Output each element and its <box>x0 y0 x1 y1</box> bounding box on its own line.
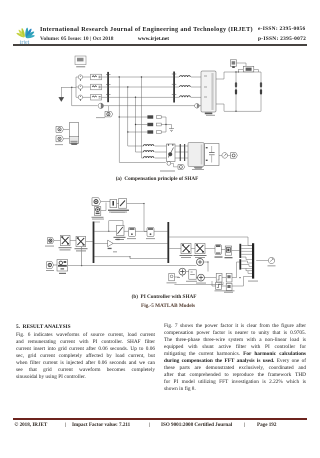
switch block 2 <box>222 277 226 279</box>
line inductors phase A <box>175 76 201 78</box>
from tag 1 bottom-left <box>56 126 64 132</box>
discrete filter block 1 <box>110 199 117 207</box>
caption (b) <box>89 294 239 300</box>
voltage sensor circle right <box>219 154 222 156</box>
extra labels diagram b <box>45 212 258 293</box>
junction dots <box>119 71 237 132</box>
abc-dq0 block 2 <box>76 236 86 246</box>
AC source Vc <box>78 95 82 99</box>
from tag pll <box>47 262 54 269</box>
left column paragraph <box>16 332 155 374</box>
leaf fan left (yellow-green petals) <box>16 28 26 38</box>
universal bridge block <box>201 71 216 112</box>
sensor circle below breaker <box>167 162 171 166</box>
dq0-abc block 1 <box>169 248 181 250</box>
goto tag small <box>178 165 185 170</box>
caption (a) <box>82 176 232 182</box>
constant block bottom left <box>169 273 175 280</box>
sum circle <box>197 259 204 266</box>
sum circle 3 <box>198 274 205 281</box>
pi block <box>147 227 154 236</box>
left rail wire <box>76 77 79 97</box>
fan wires to mux <box>241 246 252 274</box>
mux bar right (b) <box>167 222 169 263</box>
scope two-cell block <box>64 129 70 139</box>
inverter inductor row1 <box>144 145 154 146</box>
bottom switch block B <box>226 283 232 290</box>
measurement block top right <box>243 66 254 72</box>
saturation block <box>128 227 135 236</box>
RC shunt filter row 2 <box>136 124 148 126</box>
ground <box>59 97 64 101</box>
mux output scope circle <box>256 260 268 262</box>
dc block white <box>205 144 220 166</box>
dq0-abc block 2 <box>191 248 195 250</box>
abc-dq0 block 1 <box>60 235 70 245</box>
load branch 1 <box>235 72 237 111</box>
series RLC branch A <box>91 74 102 80</box>
from tag id <box>47 238 54 244</box>
section heading <box>16 324 71 330</box>
integrator block <box>189 270 196 279</box>
leaf fan right (teal petals) <box>25 28 35 39</box>
scope block top right <box>230 60 236 66</box>
series RLC branch B <box>91 84 102 90</box>
wires to top-right blocks <box>237 63 259 72</box>
bottom switch block A <box>216 282 222 289</box>
phase taps down <box>119 77 141 162</box>
wire sources to RLC <box>83 77 91 97</box>
gain pu triangle <box>94 242 107 244</box>
breaker input dots <box>168 144 169 145</box>
pll long wire <box>68 265 197 267</box>
from tag 2 bottom-left <box>56 136 64 142</box>
inverter inductor row2 <box>144 151 154 152</box>
AC source Va <box>78 75 82 79</box>
inverter rows wires <box>128 146 144 158</box>
switch block 1 <box>216 273 222 282</box>
RC bank collector and ground <box>166 117 172 132</box>
wires tag to filter blocks <box>101 202 110 211</box>
three-phase VI measurement bus 1 <box>107 72 109 102</box>
RC shunt filter row 3 <box>128 131 148 133</box>
goto tag vabc <box>105 111 113 117</box>
rate transition block <box>94 230 116 232</box>
bar1 bottom step wire <box>94 257 167 259</box>
powergui block <box>75 56 86 65</box>
three-phase VI measurement bus 2 <box>173 72 175 103</box>
junction dots b <box>129 203 240 278</box>
sample block under tag <box>94 207 100 216</box>
footer text <box>15 422 48 428</box>
mini mux bar lower <box>239 259 241 269</box>
wire filter to center <box>117 204 147 232</box>
measurement bars pair <box>180 144 181 161</box>
mux bar left (b) <box>93 222 95 264</box>
pwm block <box>221 249 225 251</box>
labels under (a) bottom blocks <box>160 171 175 172</box>
AC source Vb <box>78 85 82 89</box>
caption fig5 <box>93 303 243 309</box>
header logo irjet <box>12 22 38 46</box>
discrete PLL block <box>54 264 57 266</box>
load branch 2 <box>260 72 262 111</box>
mini mux bar upper <box>239 244 241 258</box>
relay block <box>215 245 221 255</box>
series RLC branch C <box>91 94 102 100</box>
mux bar3 <box>252 243 254 278</box>
ground tap wire <box>61 87 76 106</box>
line inductors phase C <box>175 96 201 98</box>
bar2 top bypass wire <box>169 237 252 246</box>
bridge output wires <box>216 72 261 111</box>
header rule <box>13 44 307 45</box>
RC shunt filter row 1 <box>119 116 147 118</box>
footer rule <box>13 418 307 419</box>
breaker block <box>167 144 176 162</box>
sum circle 2 <box>174 276 179 278</box>
dc capacitor inside <box>211 146 213 163</box>
phase lines bus1 to bus2 <box>109 77 173 97</box>
goto tag vdc <box>231 153 238 159</box>
wires RLC to bus1 <box>102 77 108 97</box>
inverter inductor row3 <box>144 157 154 158</box>
from tag vabc top <box>92 198 101 206</box>
wrap wire bottom <box>174 282 223 285</box>
discrete filter block 2 <box>119 199 127 209</box>
header text <box>40 26 258 33</box>
inverter subsystem gray block <box>188 143 204 167</box>
right column paragraph <box>164 323 306 386</box>
voltage sensor circle <box>72 105 98 107</box>
line inductors phase B <box>175 86 201 88</box>
